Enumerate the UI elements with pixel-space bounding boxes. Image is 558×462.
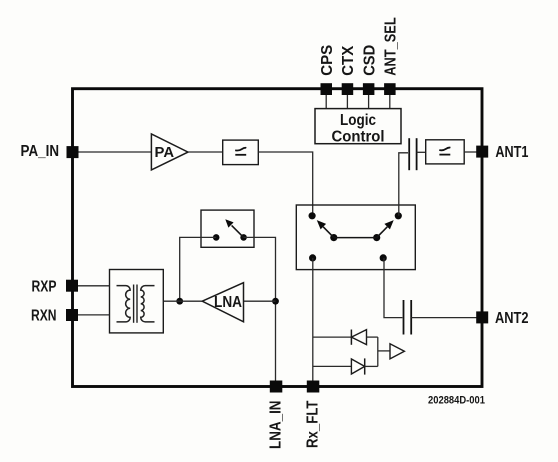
switch U4 (LNA bypass switch) <box>201 210 254 247</box>
wire cap C1 to ANT1 filter <box>417 151 426 153</box>
svg-text:ANT1: ANT1 <box>495 144 528 161</box>
wire switch ANT2 pole down to cap <box>384 258 402 318</box>
node switch common right <box>373 234 380 241</box>
wire transformer to LNA <box>163 300 202 302</box>
wire bypass switch right leg / LNA_IN riser <box>244 237 276 381</box>
pin PA_IN <box>21 143 79 160</box>
wire LNA to junction <box>244 300 276 302</box>
svg-text:CTX: CTX <box>340 45 357 75</box>
svg-text:202884D-001: 202884D-001 <box>428 395 485 407</box>
svg-text:CPS: CPS <box>319 44 336 75</box>
svg-text:ANT_SEL: ANT_SEL <box>383 17 400 76</box>
IC package outline <box>73 89 483 387</box>
capacitor C1 (ANT1 coupling) <box>409 138 416 170</box>
wire PA amp to Tx filter <box>188 151 223 153</box>
node switch common left <box>330 234 337 241</box>
svg-text:PA: PA <box>155 144 175 161</box>
wire CTX stub <box>346 95 348 109</box>
op-amp detector buffer <box>390 344 404 359</box>
filter FL1 (Tx harmonic filter) <box>223 140 259 165</box>
svg-text:RXP: RXP <box>32 278 57 295</box>
wire CPS stub <box>325 95 327 109</box>
svg-text:RXN: RXN <box>31 308 57 325</box>
switch U2 (antenna transfer switch) <box>296 205 415 270</box>
pin ANT2 <box>476 310 528 327</box>
svg-text:PA_IN: PA_IN <box>21 143 60 160</box>
node switch RX pole <box>309 254 316 261</box>
svg-text:Rx_FLT: Rx_FLT <box>305 400 322 448</box>
wire switch common bar <box>334 237 377 239</box>
block U3 Logic Control <box>315 109 401 146</box>
pin CSD <box>361 45 378 95</box>
wire ANT1 filter to ANT1 pin <box>464 151 480 153</box>
node switch ANT2 pole <box>380 254 387 261</box>
diode D2 (limiter, cathode right) <box>351 358 364 374</box>
capacitor C2 (ANT2 coupling) <box>404 300 412 335</box>
diode D1 (limiter, cathode left) <box>351 330 366 345</box>
op-amp LNA <box>202 283 243 322</box>
pin ANT_SEL <box>383 17 400 95</box>
wire upper branch to tie line <box>367 336 378 338</box>
transformer T1 (balun) <box>110 270 164 333</box>
wire tie line to detector amp <box>378 350 390 352</box>
wire RXP to transformer <box>77 285 110 287</box>
svg-text:CSD: CSD <box>361 45 378 76</box>
wire upper limiter branch <box>313 336 352 338</box>
node LNA output junction <box>176 298 183 305</box>
node switch ANT1 pole <box>395 212 402 219</box>
wire ANT_SEL stub <box>389 95 391 109</box>
svg-text:LNA_IN: LNA_IN <box>267 401 284 450</box>
svg-text:Control: Control <box>332 129 385 146</box>
wire RXN to transformer <box>77 314 110 316</box>
switch throw arrow left <box>317 220 334 238</box>
wire bypass switch left leg <box>180 237 217 301</box>
wire switch RX pole down to Rx_FLT pin <box>312 258 314 381</box>
pin CPS <box>319 44 336 95</box>
svg-text:LNA: LNA <box>214 294 242 311</box>
pin Rx_FLT <box>305 381 322 449</box>
wire limiter tie line <box>377 337 379 366</box>
wire switch ANT1 pole up to coupling cap <box>399 153 408 216</box>
pin RXN <box>31 308 78 325</box>
wire Tx filter to switch node <box>258 152 312 216</box>
node switch TX pole <box>309 212 316 219</box>
svg-text:Logic: Logic <box>340 112 376 129</box>
pin CTX <box>340 45 357 95</box>
svg-text:ANT2: ANT2 <box>495 310 529 327</box>
node LNA input junction <box>272 298 279 305</box>
filter FL2 (ANT1 low-pass filter) <box>426 140 465 164</box>
wire cap C2 to ANT2 pin <box>411 317 480 319</box>
wire PA_IN to PA amp <box>77 151 152 153</box>
switch throw arrow right <box>377 220 394 238</box>
pin ANT1 <box>476 144 528 161</box>
wire lower limiter branch <box>313 365 352 367</box>
pin RXP <box>32 278 79 295</box>
op-amp PA <box>151 134 188 170</box>
wire CSD stub <box>368 95 370 109</box>
pin LNA_IN <box>267 381 284 450</box>
wire lower branch to tie line <box>365 365 378 367</box>
